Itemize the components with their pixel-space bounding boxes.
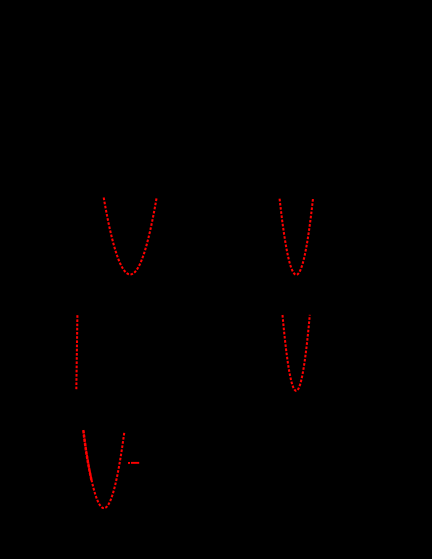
wire: near-vertical red dashed segment left of parabola D bbox=[76, 315, 77, 390]
parabola B (upper-right potential curve, red dashed) bbox=[280, 198, 314, 275]
parabola C (right-middle potential curve, red dashed) bbox=[283, 315, 310, 391]
wire: doubled stretch on left branch of parabola D bbox=[83, 431, 91, 481]
node: red dash-dot level marker right of parabola D bbox=[128, 462, 139, 464]
parabola A (upper-left potential curve, red dashed) bbox=[104, 198, 157, 275]
parabola D (bottom-left potential curve, red dashed) bbox=[83, 430, 124, 508]
